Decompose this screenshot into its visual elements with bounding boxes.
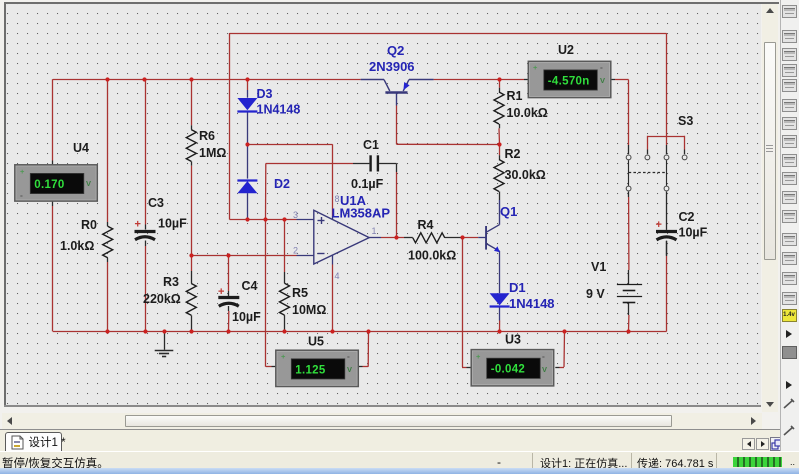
tab bar	[0, 429, 780, 451]
svg-text:C3: C3	[148, 196, 164, 210]
v-scroll down arrow	[766, 402, 774, 407]
svg-text:220kΩ: 220kΩ	[143, 292, 181, 306]
svg-text:Q1: Q1	[500, 204, 517, 219]
wire R6-R3 column x=191.3	[191, 80, 193, 332]
svg-text:1.125: 1.125	[295, 364, 326, 376]
label Q2 2N3906	[369, 43, 415, 74]
svg-text:U3: U3	[505, 333, 521, 347]
resistor R6	[186, 130, 196, 162]
svg-text:10.0kΩ: 10.0kΩ	[507, 106, 548, 120]
svg-text:+: +	[218, 286, 224, 298]
diode D1	[490, 293, 510, 306]
svg-text:10µF: 10µF	[232, 310, 261, 324]
svg-text:R3: R3	[163, 275, 179, 289]
vertical scrollbar	[762, 4, 778, 412]
svg-text:+: +	[135, 219, 141, 231]
wire Q2 base to R1/R2 node y=144.3	[397, 106, 500, 145]
node D3 anode	[245, 77, 249, 81]
resistor R2	[494, 160, 504, 192]
wire pin2 row y=255.8	[191, 255, 313, 257]
svg-text:1N4148: 1N4148	[257, 103, 301, 117]
label U4	[73, 141, 89, 155]
svg-text:3: 3	[293, 210, 298, 220]
svg-text:V1: V1	[591, 260, 606, 274]
resistor R1	[494, 92, 504, 124]
wire R2 top lead	[499, 144, 501, 200]
wire U5 left column x=266	[266, 220, 276, 367]
svg-text:-: -	[600, 62, 603, 72]
wire U3 right lead up to rail	[555, 332, 564, 368]
resistor R4	[413, 233, 445, 243]
svg-text:R0: R0	[81, 218, 97, 232]
svg-text:C4: C4	[242, 279, 258, 293]
svg-text:-: -	[542, 351, 545, 361]
svg-text:9 V: 9 V	[586, 287, 605, 301]
node output U3 tap	[460, 235, 464, 239]
svg-text:10µF: 10µF	[158, 217, 187, 231]
node pin2 a	[189, 253, 193, 257]
svg-text:C2: C2	[679, 210, 695, 224]
svg-text:D1: D1	[509, 280, 526, 295]
resistor R5	[280, 283, 290, 315]
label C3 10µF	[148, 196, 187, 231]
svg-text:10MΩ: 10MΩ	[292, 303, 326, 317]
multimeter U3	[471, 350, 554, 386]
svg-text:2N3906: 2N3906	[369, 59, 415, 74]
label R3 220kΩ	[143, 275, 181, 306]
pin number 2	[293, 246, 298, 256]
wire left vertical x=229.5 top rail to pin3 row	[229, 33, 231, 220]
node R0 top	[105, 77, 109, 81]
wire S3 feed vertical x=666.5	[666, 33, 668, 154]
node C3 top	[142, 77, 146, 81]
node rail R5	[282, 329, 286, 333]
multimeter U2	[528, 61, 611, 97]
pin number 4	[335, 271, 340, 281]
wire C2 column from S3 common	[666, 192, 668, 256]
h-scroll left arrow	[7, 417, 12, 425]
svg-text:R1: R1	[507, 89, 523, 103]
op-amp U1A LM358AP	[314, 210, 369, 264]
svg-text:R6: R6	[199, 129, 215, 143]
svg-text:C1: C1	[363, 138, 379, 152]
node R1 top	[497, 77, 501, 81]
wire pin3 row y=219.5	[230, 219, 314, 221]
svg-text:0.170: 0.170	[34, 179, 64, 191]
node rail pin4	[330, 329, 334, 333]
svg-text:+: +	[20, 167, 25, 176]
svg-text:1N4148: 1N4148	[509, 296, 555, 311]
sheet tab 设计1	[5, 432, 62, 451]
svg-text:U4: U4	[73, 141, 89, 155]
wire U5 right lead up to rail	[358, 332, 368, 367]
wire U2 right lead down to S3 throw	[611, 80, 629, 155]
label R6 1MΩ	[199, 129, 226, 160]
svg-text:1MΩ: 1MΩ	[199, 146, 226, 160]
pin number 8	[335, 194, 340, 204]
svg-text:V: V	[600, 76, 605, 85]
canvas bottom border	[4, 405, 761, 407]
node rail V1	[626, 329, 630, 333]
node R6 top	[189, 77, 193, 81]
wire V1 column from S3 common	[628, 192, 630, 285]
label V1 9 V	[586, 260, 606, 301]
node rail D1	[497, 329, 501, 333]
svg-text:+: +	[533, 63, 538, 72]
node rail C4	[226, 329, 230, 333]
node rail U3	[562, 329, 566, 333]
diode D2	[237, 181, 257, 194]
switch S3 (DPDT)	[626, 155, 687, 191]
svg-text:V: V	[347, 365, 352, 374]
horizontal scrollbar	[2, 413, 762, 429]
label R1 10.0kΩ	[507, 89, 548, 120]
svg-text:1.0kΩ: 1.0kΩ	[60, 239, 94, 253]
svg-text:-4.570n: -4.570n	[548, 75, 590, 87]
label C1 0.1µF	[351, 138, 384, 191]
node Q2 base / R1-R2	[497, 142, 501, 146]
label R4 100.0kΩ	[408, 218, 456, 263]
svg-text:R5: R5	[292, 286, 308, 300]
svg-text:-: -	[20, 190, 23, 200]
ground	[155, 331, 174, 356]
wire U4 column x=52.8	[52, 79, 54, 331]
v-scroll up arrow	[766, 8, 774, 13]
label R2 30.0kΩ	[505, 147, 546, 182]
label D3 1N4148	[257, 87, 301, 117]
label U3	[505, 333, 521, 347]
svg-text:Q2: Q2	[387, 43, 404, 58]
svg-text:2: 2	[293, 246, 298, 256]
node D3 cathode / pin8	[245, 142, 249, 146]
diode D3	[237, 98, 257, 112]
battery V1	[617, 285, 642, 303]
node rail C3	[143, 329, 147, 333]
v-scroll thumb	[764, 42, 776, 260]
transistor Q1 (NPN)	[485, 200, 500, 252]
wire C3 column x=145	[145, 80, 147, 332]
svg-text:0.1µF: 0.1µF	[351, 177, 384, 191]
node pin3 c	[282, 217, 286, 221]
svg-text:U5: U5	[308, 335, 324, 349]
svg-text:S3: S3	[678, 114, 693, 128]
capacitor C4 (polarized)	[218, 286, 239, 306]
wire U3 left column x=462	[462, 238, 471, 368]
svg-text:100.0kΩ: 100.0kΩ	[408, 249, 456, 263]
tab nav buttons	[742, 438, 755, 450]
simulation progress blocks	[733, 457, 782, 468]
wire S3 bracket joining outer throws	[647, 136, 684, 154]
label D1 1N4148	[509, 280, 555, 311]
label U1A LM358AP	[332, 193, 391, 221]
node rail U5	[366, 329, 370, 333]
resistor R0	[103, 226, 113, 257]
wire top rail from pin3 corner to S3 feed	[230, 33, 667, 35]
wire R1 column x=499	[498, 80, 501, 145]
capacitor C3 (polarized)	[135, 219, 156, 240]
wire op-amp pin 4 to rail	[332, 255, 334, 332]
svg-text:1: 1	[372, 226, 377, 236]
canvas left border	[4, 2, 6, 406]
svg-text:LM358AP: LM358AP	[332, 206, 391, 221]
label R5 10MΩ	[292, 286, 326, 317]
capacitor C2 (polarized)	[656, 219, 678, 240]
label R0 1.0kΩ	[60, 218, 97, 253]
node rail gnd	[162, 329, 166, 333]
svg-text:8: 8	[335, 194, 340, 204]
wire main row y=80 left section	[53, 79, 361, 81]
label C4 10µF	[232, 279, 261, 324]
svg-text:V: V	[542, 365, 547, 374]
label C2 10µF	[679, 210, 708, 240]
wire R0 column x=107.7	[107, 80, 109, 332]
resistor R3	[186, 284, 196, 316]
node output C1 tap	[394, 235, 398, 239]
svg-text:-: -	[347, 351, 350, 361]
wire Q1 emitter to D1 to rail	[499, 251, 501, 332]
node rail R0	[105, 329, 109, 333]
node pin3 b	[263, 217, 267, 221]
svg-text:+: +	[656, 219, 662, 231]
label U2	[558, 43, 574, 57]
wire ground rail y=331.4	[53, 241, 667, 332]
label U5	[308, 335, 324, 349]
svg-text:D2: D2	[274, 177, 290, 191]
wire C4 column x=228.8	[228, 256, 230, 332]
transistor Q2 (PNP)	[361, 80, 434, 106]
wire R5 column x=284.5	[284, 220, 286, 332]
canvas top border	[4, 2, 779, 4]
svg-text:V: V	[86, 179, 91, 188]
svg-text:10µF: 10µF	[679, 226, 708, 240]
svg-text:R4: R4	[418, 218, 434, 232]
label D2	[274, 177, 290, 191]
right toolbar strip	[780, 0, 799, 451]
svg-text:+: +	[281, 352, 286, 361]
svg-text:U2: U2	[558, 43, 574, 57]
h-scroll thumb	[125, 415, 672, 427]
multimeter U5	[276, 350, 359, 386]
status bar	[0, 451, 799, 468]
label S3	[678, 114, 693, 128]
wire main row y=80 right section to U2	[434, 79, 529, 81]
wire D3 cathode node to op-amp pin 8	[247, 144, 332, 219]
svg-text:-0.042: -0.042	[491, 364, 525, 376]
svg-text:R2: R2	[505, 147, 521, 161]
wire output row y=237.8	[369, 237, 485, 239]
node pin2 b	[226, 253, 230, 257]
node pin3 a	[245, 217, 249, 221]
svg-text:30.0kΩ: 30.0kΩ	[505, 168, 546, 182]
svg-text:D3: D3	[257, 87, 273, 101]
wire C1 left row y=163.4	[266, 163, 370, 219]
node rail R3	[189, 329, 193, 333]
capacitor C1	[369, 155, 379, 171]
pin number 3	[293, 210, 298, 220]
wire D3-D2 column x=247.4	[247, 80, 249, 220]
pin number 1	[372, 226, 377, 236]
svg-text:+: +	[476, 352, 481, 361]
wire V1 bottom lead to rail	[628, 303, 630, 332]
svg-text:4: 4	[335, 271, 340, 281]
taskbar blue strip	[0, 468, 799, 474]
label Q1	[500, 204, 517, 219]
h-scroll right arrow	[751, 417, 756, 425]
schematic canvas with dot grid	[6, 4, 761, 405]
wire C1 right lead down to output row	[379, 163, 396, 237]
multimeter U4	[15, 165, 98, 201]
